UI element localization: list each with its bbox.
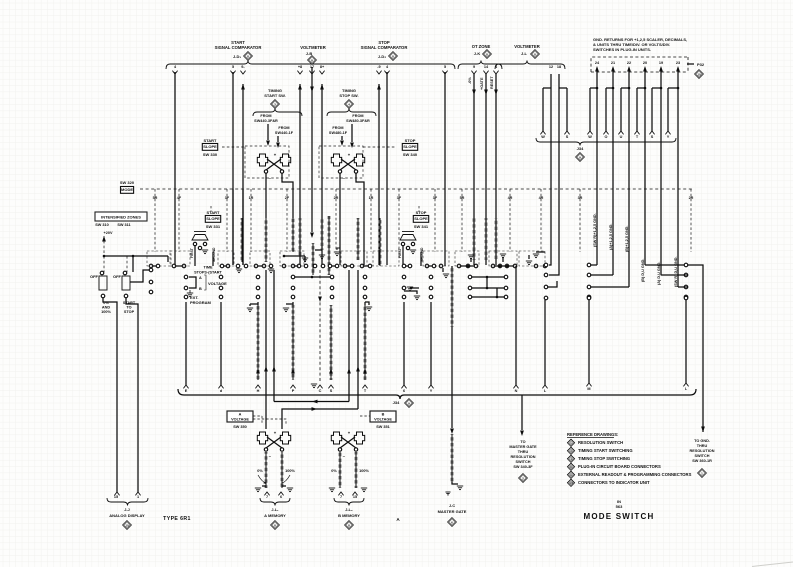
- svg-text:INTENSIFIED ZONES: INTENSIFIED ZONES: [101, 215, 141, 220]
- svg-text:E: E: [185, 389, 188, 393]
- curve arrow A right: [282, 475, 290, 483]
- ground 286: [283, 307, 289, 309]
- svg-text:6: 6: [403, 389, 405, 393]
- wire 349 up-arrow: [348, 270, 350, 402]
- svg-text:U: U: [620, 135, 623, 139]
- svg-text:SW 311: SW 311: [117, 223, 130, 227]
- wire M drop: [588, 300, 590, 383]
- svg-text:22: 22: [627, 61, 631, 65]
- wire 322 down: [321, 250, 323, 265]
- svg-text:MASTER GATE: MASTER GATE: [509, 445, 537, 449]
- svg-text:FROM: FROM: [260, 114, 271, 118]
- wire gnd22 bend: [591, 286, 629, 288]
- wire wafer link 222-228: [224, 265, 226, 267]
- selector actuator SW 331: [192, 235, 208, 241]
- wire SW 341 second wire: [420, 252, 422, 266]
- svg-text:J-C: J-C: [449, 504, 455, 508]
- arrow into stop sw from SW480-1F: [341, 136, 343, 140]
- stub from contact 546,287: [548, 281, 557, 287]
- svg-text:SW 320: SW 320: [120, 180, 135, 185]
- svg-text:TO: TO: [520, 440, 525, 444]
- shielded wire P: [292, 305, 295, 380]
- brace over J-L pins: [495, 61, 565, 70]
- brace under plug-in letters J34: [536, 138, 676, 146]
- wire 358 drop: [357, 270, 359, 409]
- brace under analog display: [107, 498, 148, 506]
- contact (332,288): [330, 286, 334, 290]
- wire gnd23 bend: [678, 286, 688, 288]
- wire start sw out left: [265, 173, 267, 189]
- svg-text:SW 351: SW 351: [376, 425, 390, 429]
- diamond ref 1: [698, 469, 707, 478]
- svg-text:FROM: FROM: [332, 126, 343, 130]
- svg-text:TIMING START SWITCHING: TIMING START SWITCHING: [578, 448, 633, 453]
- svg-text:Y: Y: [667, 135, 670, 139]
- wire 8+ up arrow: [320, 84, 324, 90]
- svg-text:RESOLUTION: RESOLUTION: [690, 449, 715, 453]
- curve arrow A left: [258, 475, 266, 483]
- contact (186,297): [184, 295, 188, 299]
- svg-text:0%: 0%: [257, 469, 263, 473]
- svg-text:10: 10: [125, 523, 129, 527]
- switch crossbar timing start: [257, 154, 267, 166]
- svg-text:A: A: [199, 276, 202, 280]
- svg-text:SW 310: SW 310: [95, 223, 109, 227]
- shielded wire master gate: [451, 395, 453, 428]
- dashed box plug-in gnd pins: [591, 57, 688, 72]
- ref item 1: [567, 439, 574, 446]
- wire gnd20 bend: [645, 264, 688, 266]
- svg-text:SW440-1F: SW440-1F: [275, 131, 294, 135]
- svg-text:W: W: [588, 135, 592, 139]
- wire d drop: [220, 302, 222, 385]
- svg-text:563: 563: [616, 504, 623, 509]
- brace over OT ZONE pins: [458, 61, 502, 70]
- A/B VOLTAGE bracket: [189, 277, 196, 288]
- svg-text:REFERENCE DRAWINGS:: REFERENCE DRAWINGS:: [567, 432, 618, 437]
- wire stop sw out right: [356, 173, 364, 265]
- svg-text:O: O: [605, 135, 608, 139]
- svg-text:S: S: [566, 135, 569, 139]
- brace over FROM labels (stop): [327, 109, 376, 117]
- diamond ref 3: [271, 100, 280, 109]
- svg-text:-9: -9: [377, 65, 380, 69]
- wire 4 down: [386, 72, 388, 250]
- wire 233 down to wafer: [232, 189, 234, 265]
- contact (431,277): [429, 275, 433, 279]
- shielded wire x=358 upper: [357, 218, 360, 260]
- svg-text:SLOPE: SLOPE: [414, 216, 428, 221]
- svg-text:15: 15: [114, 495, 118, 499]
- ground 368: [366, 306, 372, 308]
- crossbar network 470-506: [472, 276, 504, 278]
- svg-text:VOLTMETER: VOLTMETER: [300, 45, 326, 50]
- contact (506,288): [504, 286, 508, 290]
- svg-text:J-D₁: J-D₁: [233, 54, 241, 59]
- diamond ref 6 master gate: [448, 518, 457, 527]
- shielded wire H: [257, 305, 260, 380]
- wire gnd pin 645 branch to T: [644, 74, 646, 88]
- svg-text:SW480-1F: SW480-1F: [329, 131, 348, 135]
- svg-text:START: START: [206, 210, 220, 215]
- shielded wire S: [330, 305, 333, 380]
- svg-text:TO: TO: [126, 306, 131, 310]
- shielded wire A mem right: [281, 452, 284, 488]
- col 589 bottom contact: [587, 296, 591, 300]
- wire 243 down to wafer: [242, 189, 244, 265]
- ground under SW 331: [202, 249, 208, 251]
- arrow into stop sw from SW480-3F&R: [351, 124, 353, 142]
- arrow into start sw from SW440-3F&R: [267, 124, 269, 140]
- svg-text:100%: 100%: [101, 310, 111, 314]
- contact (431,288): [429, 286, 433, 290]
- svg-text:EXTERNAL READOUT & PROGRAMMING: EXTERNAL READOUT & PROGRAMMING CONNECTOR…: [578, 472, 692, 477]
- arrow to gnd resolution: [701, 427, 705, 433]
- ground 529: [528, 255, 530, 259]
- contact (506,297): [504, 295, 508, 299]
- switch SW311 lever: [122, 276, 130, 290]
- svg-text:SW 350: SW 350: [233, 425, 247, 429]
- svg-text:(SW R)+1,2,5 GND.: (SW R)+1,2,5 GND.: [593, 213, 597, 247]
- wire Y drop: [430, 302, 432, 385]
- svg-text:OT ZONE: OT ZONE: [472, 44, 491, 49]
- diamond ref 8 (J-K): [483, 50, 492, 59]
- wire right of sw311: [130, 270, 151, 282]
- svg-text:15: 15: [353, 495, 357, 499]
- svg-text:SW480-3F&R: SW480-3F&R: [346, 119, 370, 123]
- feed line to A memory: [274, 401, 349, 403]
- shielded wire x=380 upper: [379, 218, 382, 266]
- shielded wire x=266 upper: [265, 218, 268, 262]
- wire OT -0% down arrow: [473, 74, 475, 265]
- svg-text:9: 9: [473, 65, 475, 69]
- shielded wire x=496 upper: [495, 218, 498, 260]
- col 546 bottom contact: [544, 296, 548, 300]
- wire gnd pin 678 branch to Y: [677, 74, 679, 88]
- wire pin4 left down: [174, 72, 176, 266]
- wire 274 drop: [273, 270, 275, 402]
- svg-text:12: 12: [549, 65, 553, 69]
- ground under A/B voltage bracket: [187, 292, 193, 294]
- dashed drop C: [319, 270, 321, 382]
- svg-text:100%: 100%: [359, 469, 369, 473]
- svg-text:MODE: MODE: [121, 187, 133, 192]
- svg-text:SLOPE: SLOPE: [203, 144, 217, 149]
- svg-text:PLUG-IN CIRCUIT BOARD CONNECTO: PLUG-IN CIRCUIT BOARD CONNECTORS: [578, 464, 661, 469]
- dashed section box timing stop sw: [319, 146, 363, 178]
- wire pin5 down: [232, 72, 234, 265]
- wire gnd pin 613 branch to O: [612, 74, 614, 88]
- dashed link slope340 to stop sw: [363, 146, 396, 148]
- svg-text:VOLTAGE: VOLTAGE: [374, 418, 392, 422]
- wire J-L 12 continues to contact: [549, 88, 551, 265]
- contact (332,277): [330, 275, 334, 279]
- svg-text:FROM: FROM: [352, 114, 363, 118]
- svg-text:5: 5: [444, 65, 446, 69]
- svg-text:5: 5: [232, 65, 234, 69]
- svg-text:Y: Y: [430, 389, 433, 393]
- wire wafer 238 ground: [236, 268, 242, 270]
- svg-text:+8: +8: [298, 65, 302, 69]
- svg-text:+20V: +20V: [104, 231, 113, 235]
- svg-text:START SW.: START SW.: [264, 93, 285, 98]
- ground under SW 341: [410, 249, 416, 251]
- svg-text:SWITCH: SWITCH: [695, 454, 710, 458]
- svg-text:100%: 100%: [285, 469, 295, 473]
- contact (186,288): [184, 286, 188, 290]
- wire gnd24 to contacts: [591, 264, 597, 266]
- wire 452 to bus: [451, 327, 453, 395]
- svg-text:J-D₂: J-D₂: [378, 54, 386, 59]
- svg-text:P32: P32: [697, 62, 705, 67]
- ground master gate: [452, 482, 458, 484]
- svg-text:C: C: [319, 389, 322, 393]
- svg-text:B MEMORY: B MEMORY: [338, 513, 360, 518]
- brace over left connector pins: [166, 61, 455, 70]
- scanner streak bottom-right: [752, 562, 793, 567]
- wire 17 voltmeter down arrow: [311, 67, 313, 232]
- svg-text:(B)+1,2,5 GND.: (B)+1,2,5 GND.: [625, 226, 629, 252]
- svg-text:B: B: [382, 413, 385, 417]
- boxed MODE: [121, 187, 134, 194]
- wire 5 down: [444, 72, 446, 266]
- wire wafer 271 ground: [268, 268, 274, 270]
- shielded 451 partial: [451, 268, 454, 327]
- svg-text:START: START: [203, 138, 217, 143]
- svg-text:STOPS-(START: STOPS-(START: [194, 271, 222, 275]
- svg-text:SW 360-1R: SW 360-1R: [692, 459, 712, 463]
- contact (506,277): [504, 275, 508, 279]
- diamond ref 8 (J-D2): [389, 52, 398, 61]
- wire 387 down: [386, 250, 388, 265]
- J34 gathering bus: [178, 389, 696, 399]
- pins 15/1 analog display: [114, 492, 119, 495]
- shielded wire x=329 upper: [328, 216, 331, 275]
- wire wafer link 404-410: [406, 265, 408, 267]
- wafer contacts row: [149, 264, 153, 268]
- svg-text:21: 21: [611, 61, 615, 65]
- ground A left: [255, 487, 261, 489]
- svg-text:J34: J34: [393, 400, 400, 405]
- diamond ref 8 (J-B): [308, 56, 317, 65]
- contact (365,297): [363, 295, 367, 299]
- contact (470,277): [468, 275, 472, 279]
- wire sw310 dashed drop: [103, 256, 105, 272]
- svg-text:OFF: OFF: [113, 274, 122, 279]
- switch crossbar timing stop: [331, 154, 341, 166]
- diamond ref 10 analog: [123, 521, 132, 530]
- svg-text:1: 1: [137, 495, 139, 499]
- wire wafer link 362-370: [364, 265, 368, 267]
- wire far right drop: [685, 300, 687, 383]
- svg-text:J-K: J-K: [474, 51, 481, 56]
- svg-text:(SW R) D,U GND.: (SW R) D,U GND.: [674, 256, 678, 287]
- wire gnd 23 down: [677, 88, 679, 287]
- svg-text:7: 7: [340, 495, 342, 499]
- svg-text:23: 23: [676, 61, 680, 65]
- svg-text:VOLTAGE: VOLTAGE: [231, 418, 249, 422]
- contact (258,277): [256, 275, 260, 279]
- wire 379 down: [378, 250, 380, 265]
- shielded wire x=293 upper: [292, 218, 295, 252]
- wire gnd pin 661 branch to S: [660, 74, 662, 88]
- wire OT RESET down arrow: [495, 74, 497, 265]
- wire +8 up arrow: [298, 84, 302, 90]
- wire sw311 dashed drop: [126, 256, 128, 272]
- svg-text:10: 10: [697, 72, 701, 76]
- wire E drop: [185, 302, 187, 385]
- shielded wire x=242 upper: [241, 218, 244, 262]
- svg-text:+GATE: +GATE: [480, 77, 484, 90]
- wire wafer link 174-184: [176, 265, 182, 267]
- wire wafer link 330-337: [332, 265, 335, 267]
- ref item 8: [567, 463, 574, 470]
- wire gnd 22 down: [628, 88, 630, 287]
- svg-text:J-L: J-L: [521, 51, 528, 56]
- svg-text:S: S: [651, 135, 654, 139]
- ref item 3: [567, 447, 574, 454]
- svg-text:0%: 0%: [331, 469, 337, 473]
- shielded wire x=322 upper: [321, 218, 324, 250]
- ground 337: [334, 251, 340, 253]
- ground A right: [287, 487, 293, 489]
- svg-text:STOP: STOP: [124, 310, 135, 314]
- connector P32: [687, 63, 694, 65]
- diamond ref 8 B memory: [345, 521, 354, 530]
- svg-text:TIME: TIME: [203, 266, 213, 270]
- svg-text:SW 331: SW 331: [206, 224, 221, 229]
- wire wafer link 493-515: [495, 265, 513, 267]
- wire 322 ground: [319, 254, 325, 256]
- wire J-L 18 to S: [558, 74, 560, 88]
- svg-text:CONNECTORS TO INDICATOR UNIT: CONNECTORS TO INDICATOR UNIT: [578, 480, 650, 485]
- svg-text:OFF: OFF: [90, 274, 99, 279]
- wire wafer link 459-476: [461, 265, 474, 267]
- svg-text:MASTER GATE: MASTER GATE: [438, 509, 467, 514]
- wire +20V arrow: [102, 236, 106, 242]
- svg-text:B: B: [199, 287, 202, 291]
- brace over FROM labels (start): [253, 109, 302, 117]
- dashed link A voltage: [253, 415, 262, 417]
- ground 412: [412, 287, 419, 289]
- contact (404,297): [402, 295, 406, 299]
- svg-text:VOLTAGE: VOLTAGE: [208, 281, 227, 286]
- ground B right: [361, 487, 367, 489]
- svg-text:SLOPE: SLOPE: [403, 144, 417, 149]
- x545 gnd: [536, 251, 545, 253]
- svg-text:A: A: [239, 413, 242, 417]
- svg-text:M: M: [587, 387, 590, 391]
- svg-text:THRU: THRU: [697, 444, 708, 448]
- diamond ref 10 (P32): [695, 70, 704, 79]
- contact (332,297): [330, 295, 334, 299]
- contact (186,277): [184, 275, 188, 279]
- wire gnd pin 597 branch to W: [596, 74, 598, 88]
- dashed link B voltage: [360, 415, 370, 417]
- svg-text:20: 20: [643, 61, 647, 65]
- contact (293,288): [291, 286, 295, 290]
- shielded T: [364, 305, 367, 380]
- svg-text:THRU: THRU: [518, 450, 529, 454]
- shielded wire B mem right: [355, 452, 358, 488]
- wire wafer link 151-158: [153, 265, 156, 267]
- ref item 4: [567, 455, 574, 462]
- diamond ref 8 A memory: [271, 521, 280, 530]
- wire SW 331 first contact down: [194, 246, 196, 266]
- shielded wire x=486 upper: [485, 218, 488, 260]
- svg-text:FROM: FROM: [278, 126, 289, 130]
- contact (470,297): [468, 295, 472, 299]
- wire J-L 12 to W: [550, 74, 552, 88]
- contact (365,277): [363, 275, 367, 279]
- shielded wire x=300 upper: [299, 218, 302, 256]
- svg-text:SWITCHES IN PLUG-IN UNITS.: SWITCHES IN PLUG-IN UNITS.: [593, 47, 651, 52]
- pins 7/6 A memory: [264, 492, 269, 495]
- svg-text:TO GND.: TO GND.: [694, 439, 710, 443]
- wire SW 341 first contact down: [402, 246, 404, 266]
- contact (221,277): [219, 275, 223, 279]
- wire gnd pin 629 branch to U: [628, 74, 630, 88]
- dashed link SW 331: [210, 206, 212, 212]
- svg-text:J-L₂: J-L₂: [345, 508, 353, 512]
- wire J-L 18 continues to contact: [549, 88, 559, 275]
- wire OT +GATE down arrow: [485, 74, 487, 265]
- svg-text:N: N: [515, 389, 518, 393]
- wire gnd 24 down: [596, 88, 598, 265]
- shielded wire B mem left: [339, 452, 342, 488]
- ground 446: [442, 268, 444, 272]
- wire gnd21 bend: [591, 274, 613, 276]
- boxed B VOLTAGE SW 351: [370, 411, 396, 422]
- shielded wire x=313 upper: [312, 243, 315, 275]
- svg-text:-0%: -0%: [468, 77, 472, 84]
- contact (221,288): [219, 286, 223, 290]
- wire 6 drop: [403, 302, 405, 385]
- svg-text:AND: AND: [102, 306, 110, 310]
- wire 304 ground: [302, 257, 308, 259]
- svg-text:SIGNAL COMPARATOR: SIGNAL COMPARATOR: [215, 45, 262, 50]
- wire gnd19 bend: [661, 274, 688, 276]
- wire N drop: [515, 266, 517, 385]
- contact (404,277): [402, 275, 406, 279]
- wire wafer link 345-352: [347, 265, 350, 267]
- wire stop sw out left: [339, 173, 341, 265]
- svg-text:J-L₁: J-L₁: [271, 508, 279, 512]
- svg-text:STOP: STOP: [416, 210, 427, 215]
- dashed section box timing start sw: [245, 146, 289, 178]
- shielded wire x=474 upper: [473, 218, 476, 260]
- ground 250: [247, 307, 253, 309]
- contact (365,288): [363, 286, 367, 290]
- contact (258,288): [256, 286, 260, 290]
- svg-text:SW 340: SW 340: [403, 152, 418, 157]
- wire gnd 21 down: [612, 88, 614, 275]
- ref item 9: [567, 471, 574, 478]
- diamond ref 8 (J-D1): [244, 52, 253, 61]
- wire +20V feed: [103, 255, 106, 258]
- contact (431,297): [429, 295, 433, 299]
- wire wafer link 256-264: [258, 265, 262, 267]
- wire SW 331 second wire: [212, 252, 214, 266]
- dashed wafer boxes: [147, 251, 171, 266]
- wire 300 down: [299, 250, 301, 265]
- diamond ref 9 bottom: [405, 399, 414, 408]
- boxed INTENSIFIED ZONES: [95, 212, 147, 221]
- wire to master gate resolution: [521, 395, 523, 430]
- svg-text:STOP SW.: STOP SW.: [339, 93, 358, 98]
- wire sw311 to analog display: [126, 298, 138, 492]
- feed line to B memory: [282, 409, 358, 429]
